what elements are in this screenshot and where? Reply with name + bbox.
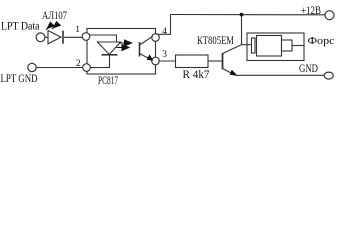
injector plate bbox=[252, 38, 256, 53]
junction node bbox=[240, 13, 244, 17]
pin 3 circle bbox=[152, 57, 160, 65]
internal LED triangle bbox=[98, 42, 121, 55]
svg-text:Форс: Форс bbox=[308, 35, 335, 47]
svg-text:GND: GND bbox=[299, 61, 318, 75]
top +12V rail bbox=[171, 14, 326, 16]
GND terminal bbox=[324, 72, 333, 79]
svg-text:КТ805ЕМ: КТ805ЕМ bbox=[197, 35, 234, 47]
bottom ground wire bbox=[235, 74, 324, 76]
svg-text:1: 1 bbox=[75, 25, 80, 35]
LED D1 cathode bar bbox=[62, 31, 64, 44]
injector nozzle bbox=[282, 40, 293, 51]
pin 1 circle bbox=[82, 33, 90, 41]
wire pin3 to resistor bbox=[159, 60, 175, 62]
wire nozzle to box edge bbox=[292, 45, 304, 47]
+12V terminal bbox=[325, 11, 334, 20]
phototransistor collector bbox=[140, 36, 153, 45]
resistor R1 body bbox=[176, 55, 209, 68]
phototransistor emitter arrow bbox=[147, 54, 154, 60]
wire collector riser bbox=[241, 15, 243, 45]
injector body bbox=[257, 36, 282, 57]
LPT GND terminal bbox=[28, 63, 36, 71]
wire resistor to base bbox=[208, 60, 222, 62]
internal LED cathode bar bbox=[102, 54, 118, 56]
phototransistor emitter bbox=[140, 54, 153, 61]
wire LED to pin1 bbox=[64, 36, 82, 38]
svg-text:+12В: +12В bbox=[301, 3, 321, 17]
svg-text:4: 4 bbox=[162, 27, 167, 37]
wire LPT GND to pin2 bbox=[36, 67, 82, 69]
optocoupler U1 PC817 box bbox=[87, 29, 156, 75]
transistor Q1 emitter arrow bbox=[230, 70, 238, 76]
wire pin1 to internal LED bbox=[90, 35, 117, 42]
svg-text:3: 3 bbox=[162, 50, 167, 60]
transistor Q1 base bar bbox=[222, 53, 224, 69]
terminal LPT Data bbox=[36, 33, 45, 42]
optical arrows bbox=[117, 40, 132, 51]
phototransistor base bar bbox=[139, 42, 141, 57]
transistor Q1 collector bbox=[223, 45, 242, 54]
wire bbox=[45, 36, 48, 38]
LED D1 emission arrows bbox=[46, 22, 61, 30]
svg-text:R 4k7: R 4k7 bbox=[183, 67, 210, 81]
pin 2 circle bbox=[83, 64, 91, 72]
pin 4 circle bbox=[152, 34, 160, 42]
svg-text:LPT GND: LPT GND bbox=[1, 71, 38, 85]
injector box bbox=[247, 33, 304, 61]
wire internal LED to pin2 bbox=[90, 56, 109, 68]
LED D1 triangle bbox=[48, 31, 61, 44]
wire pin4 to top rail bbox=[157, 15, 170, 35]
wire riser to injector bbox=[242, 44, 252, 46]
svg-text:АЛ107: АЛ107 bbox=[42, 8, 67, 22]
transistor Q1 emitter bbox=[223, 69, 236, 76]
svg-text:PC817: PC817 bbox=[98, 73, 118, 87]
svg-text:LPT Data: LPT Data bbox=[1, 19, 40, 33]
